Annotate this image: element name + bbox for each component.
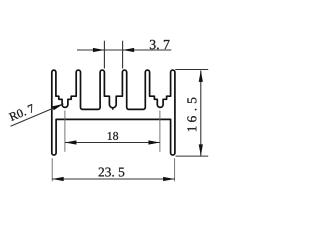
- dimension text 16.5 (rotated): [187, 98, 196, 132]
- dimension 3.7 arrow right: [123, 48, 135, 52]
- heatsink profile outline: [52, 70, 175, 155]
- dimension text 23.5: [99, 168, 125, 177]
- extension line 18 left (from groove center): [64, 111, 66, 152]
- dimension text 3.7: [150, 40, 170, 49]
- extension line above fin 3 (dim 3.7): [103, 41, 105, 69]
- dimension 23.5 arrow left: [52, 177, 64, 181]
- extension line 23.5 right: [174, 158, 176, 181]
- dimension 18 arrow right: [148, 140, 160, 144]
- dimension 3.7 line left tail: [77, 49, 104, 51]
- extension line 23.5 left: [51, 158, 53, 181]
- leader text R0.7 (rotated): [9, 104, 35, 121]
- middle screw-port point tick: [112, 108, 114, 110]
- leader line R0.7: [11, 104, 64, 126]
- dimension 3.7 line middle segment: [104, 49, 122, 51]
- extension line 16.5 bottom: [176, 155, 209, 157]
- extension line 18 right (from groove center): [159, 111, 161, 152]
- extension line 16.5 top: [175, 69, 208, 71]
- dimension 16.5 line: [200, 70, 202, 155]
- extension line above fin 4 (dim 3.7): [122, 41, 124, 69]
- dimension text 18: [108, 132, 118, 140]
- dimension 16.5 arrow down: [199, 144, 203, 156]
- dimension 23.5 line: [52, 178, 174, 180]
- dimension 16.5 arrow up: [199, 70, 203, 82]
- dimension 23.5 arrow right: [163, 177, 175, 181]
- dimension 18 line: [65, 142, 160, 144]
- dimension 3.7 line right tail: [123, 49, 172, 51]
- dimension 3.7 arrow left: [93, 48, 105, 52]
- leader arrow R0.7: [52, 104, 63, 110]
- dimension 18 arrow left: [65, 140, 77, 144]
